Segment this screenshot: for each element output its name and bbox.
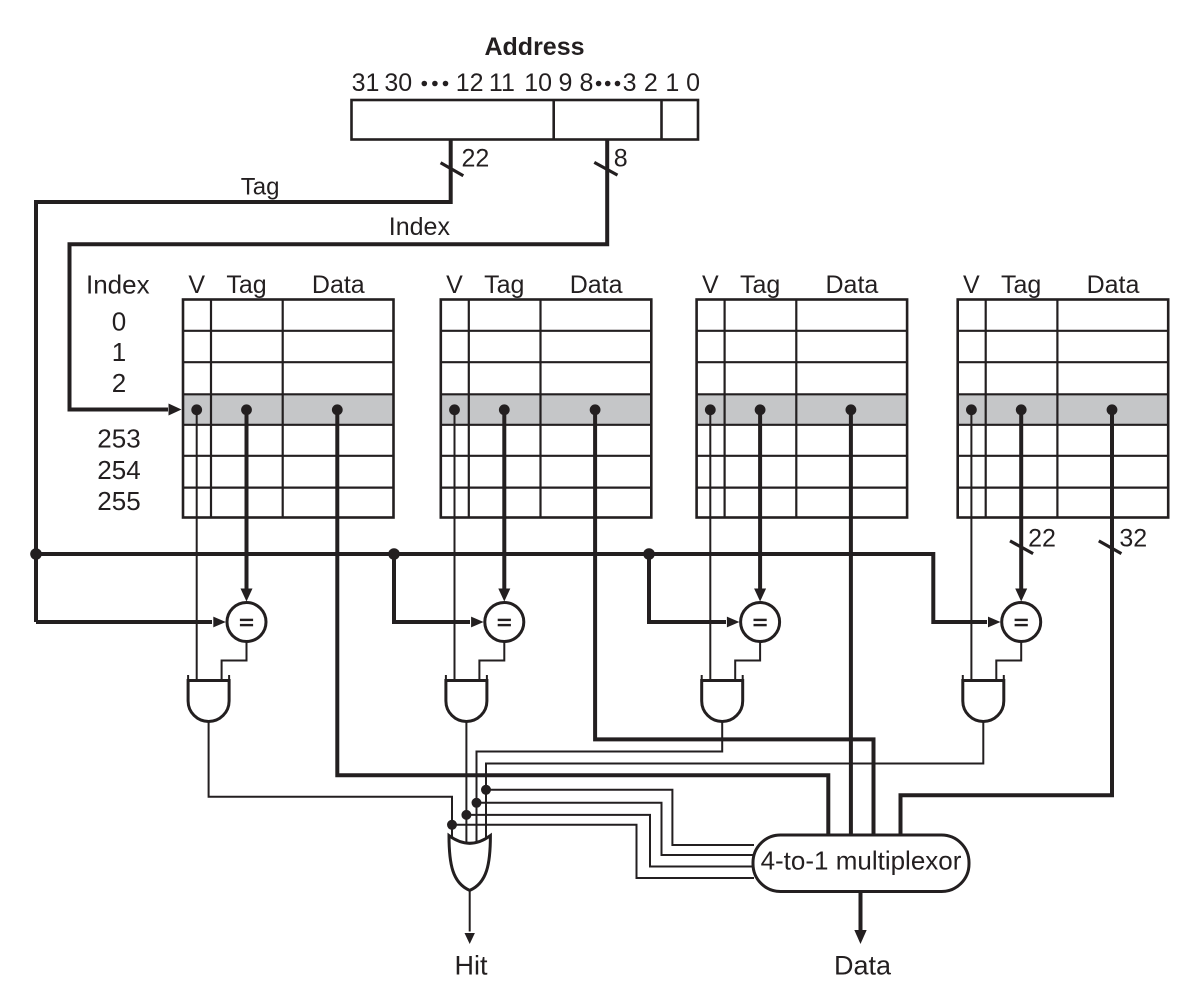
wire comparator 2 output to AND gate <box>479 642 504 683</box>
arrowhead Tag1 into comparator <box>241 589 253 602</box>
junction dot select 1 <box>447 820 457 830</box>
wire Tag4 down to comparator <box>1019 410 1023 590</box>
comparator =1 (equality) <box>227 603 266 642</box>
svg-text:22: 22 <box>1028 525 1056 553</box>
bank 3 junction dots V Tag Data on selected row <box>705 404 856 415</box>
svg-text:V: V <box>446 271 463 299</box>
bank 1 table grid with selected set row shaded <box>183 300 394 518</box>
svg-text:Tag: Tag <box>740 271 780 299</box>
AND gate 4 <box>963 675 1004 722</box>
4-to-1 multiplexor <box>753 835 969 892</box>
wire AND4 output to OR gate <box>486 722 983 849</box>
bank 4 column headers V Tag Data <box>963 271 1139 299</box>
svg-text:Tag: Tag <box>241 174 280 201</box>
svg-text:3: 3 <box>623 69 637 97</box>
svg-text:V: V <box>188 271 205 299</box>
bank 3 table grid with selected set row shaded <box>697 300 908 518</box>
AND gate 2 <box>446 675 487 722</box>
wire Data1 to multiplexor <box>337 410 828 836</box>
svg-text:10: 10 <box>524 69 552 97</box>
svg-text:Tag: Tag <box>226 271 266 299</box>
svg-text:31: 31 <box>352 69 380 97</box>
svg-text:1: 1 <box>665 69 679 97</box>
wire AND3 output to OR gate <box>477 721 723 848</box>
svg-text:12: 12 <box>456 69 484 97</box>
svg-text:11: 11 <box>489 69 515 97</box>
wire mux select 1 from AND1 junction <box>452 825 754 878</box>
bank 3 column headers V Tag Data <box>702 271 878 299</box>
svg-text:V: V <box>702 271 719 299</box>
svg-text:0: 0 <box>112 307 126 337</box>
wire tag field (22) from address box <box>36 140 451 203</box>
wire mux select 3 from AND3 junction <box>477 803 755 855</box>
wire V1 valid bit down to AND gate <box>196 410 198 682</box>
wire Tag3 down to comparator <box>758 410 762 590</box>
svg-text:Data: Data <box>825 271 878 299</box>
svg-text:Data: Data <box>312 271 365 299</box>
svg-text:Tag: Tag <box>1001 271 1041 299</box>
wire comparator 2 feed from bus <box>394 554 470 622</box>
svg-text:8: 8 <box>580 69 594 97</box>
svg-text:2: 2 <box>112 368 126 398</box>
wire comparator 1 output to AND gate <box>222 642 247 683</box>
wire comparator 3 feed from bus <box>649 554 726 622</box>
svg-text:1: 1 <box>112 337 126 367</box>
arrowhead hit <box>465 933 475 944</box>
svg-text:V: V <box>963 271 980 299</box>
arrowhead Tag3 into comparator <box>754 589 766 602</box>
svg-text:30: 30 <box>384 69 412 97</box>
label Index (row header column) <box>86 270 150 300</box>
wire mux select 4 from AND4 junction <box>486 790 754 845</box>
svg-text:32: 32 <box>1119 525 1147 553</box>
label Data (output) <box>834 951 892 981</box>
label 8 <box>614 145 628 173</box>
comparator =3 (equality) <box>741 603 780 642</box>
comparator =2 (equality) <box>485 603 524 642</box>
junction dot bus branch 3 <box>643 548 655 560</box>
wire V4 valid bit down to AND gate <box>970 410 972 682</box>
wire V2 valid bit down to AND gate <box>454 410 456 682</box>
label 22 <box>461 144 489 172</box>
wire Tag2 down to comparator <box>502 410 506 590</box>
address register box with tag/index/offset fields <box>352 100 699 140</box>
arrowhead index into set row <box>169 404 182 416</box>
wire tag vertical feed left side <box>34 200 38 622</box>
svg-text:Index: Index <box>86 270 150 300</box>
svg-text:254: 254 <box>97 455 140 485</box>
svg-text:Data: Data <box>570 271 623 299</box>
wire mux select 2 from AND2 junction <box>466 815 754 867</box>
svg-text:Tag: Tag <box>484 271 524 299</box>
svg-text:Data: Data <box>834 951 892 981</box>
wire comparator 4 feed from bus <box>933 552 987 622</box>
svg-text:8: 8 <box>614 145 628 173</box>
label Tag <box>241 174 280 201</box>
svg-text:253: 253 <box>97 424 140 454</box>
wire Data4 to multiplexor <box>901 410 1113 836</box>
bank 4 table grid with selected set row shaded <box>958 300 1168 518</box>
svg-text:Hit: Hit <box>455 951 488 981</box>
junction dot select 3 <box>472 798 482 808</box>
junction dot bus left <box>30 548 42 560</box>
junction dot select 4 <box>481 785 491 795</box>
label 22 (bank 4 tag) <box>1028 525 1056 553</box>
title Address <box>484 33 584 61</box>
wire index field (8) from address box <box>70 140 608 410</box>
AND gate 3 <box>702 675 743 722</box>
wire Data3 to multiplexor <box>849 410 853 836</box>
bank 1 column headers V Tag Data <box>188 271 364 299</box>
slash 8-bit width marker <box>594 162 617 175</box>
slash 22-bit tag width marker bank4 <box>1010 541 1033 554</box>
arrowhead into comparator 3 <box>727 617 740 628</box>
comparator =4 (equality) <box>1002 603 1041 642</box>
arrowhead Tag4 into comparator <box>1015 589 1027 602</box>
wire AND2 output to OR gate <box>465 722 467 849</box>
svg-text:Data: Data <box>1087 271 1140 299</box>
svg-text:9: 9 <box>558 69 572 97</box>
arrowhead Tag2 into comparator <box>498 589 510 602</box>
wire comparator 4 output to AND gate <box>996 642 1021 683</box>
junction dot select 2 <box>461 810 471 820</box>
OR gate (hit) <box>449 836 490 891</box>
label 32 (bank 4 data) <box>1119 525 1147 553</box>
bank 2 junction dots V Tag Data on selected row <box>449 404 600 415</box>
svg-text:22: 22 <box>461 144 489 172</box>
wire comparator 3 output to AND gate <box>735 642 760 683</box>
bank 1 junction dots V Tag Data on selected row <box>191 404 342 415</box>
arrowhead data out <box>854 930 866 944</box>
wire OR output <box>469 890 471 931</box>
wire Tag1 down to comparator <box>245 410 249 590</box>
bank 2 column headers V Tag Data <box>446 271 622 299</box>
wire comparator 1 feed from bus <box>36 620 212 624</box>
arrowhead into comparator 2 <box>471 617 484 628</box>
arrowhead into comparator 4 <box>988 617 1001 628</box>
row index labels 0 1 2 253 254 255 <box>97 307 140 516</box>
bank 4 junction dots V Tag Data on selected row <box>966 404 1117 415</box>
svg-text:Index: Index <box>389 213 451 241</box>
svg-text:2: 2 <box>644 69 658 97</box>
svg-text:0: 0 <box>686 69 700 97</box>
svg-text:255: 255 <box>97 486 140 516</box>
label Hit <box>455 951 488 981</box>
arrowhead into comparator 1 <box>213 617 226 628</box>
slash 32-bit data width marker bank4 <box>1099 541 1122 554</box>
svg-text:Address: Address <box>484 33 584 61</box>
wire AND1 output to OR gate <box>209 722 452 849</box>
wire multiplexor data output <box>859 892 863 931</box>
bank 2 table grid with selected set row shaded <box>441 300 652 518</box>
svg-text:4-to-1 multiplexor: 4-to-1 multiplexor <box>761 846 962 876</box>
AND gate 1 <box>188 675 229 722</box>
junction dot bus branch 2 <box>388 548 400 560</box>
slash 22-bit width marker <box>441 163 464 176</box>
address bit numbers 31..0 <box>352 69 700 97</box>
label Index (wire) <box>389 213 451 241</box>
wire tag-compare bus horizontal <box>36 552 933 556</box>
wire V3 valid bit down to AND gate <box>709 410 711 682</box>
wire Data2 to multiplexor <box>595 410 873 836</box>
